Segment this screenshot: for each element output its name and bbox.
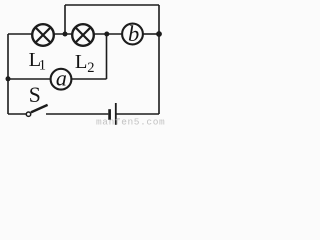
svg-text:2: 2 [87, 60, 94, 76]
svg-text:L: L [75, 51, 88, 73]
svg-text:1: 1 [39, 58, 46, 74]
svg-text:a: a [56, 65, 67, 90]
svg-text:manfen5.com: manfen5.com [96, 117, 165, 127]
svg-text:S: S [29, 83, 41, 107]
svg-text:b: b [128, 21, 139, 46]
